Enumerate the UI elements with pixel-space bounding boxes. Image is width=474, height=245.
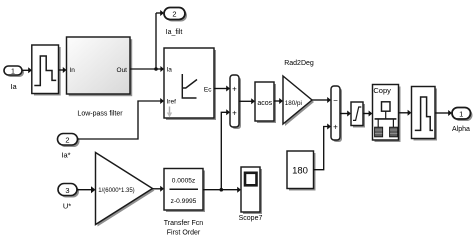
svg-text:−: − [333, 96, 338, 105]
svg-text:0.0005z: 0.0005z [172, 178, 195, 185]
svg-text:Transfer Fcn: Transfer Fcn [164, 220, 204, 227]
wire saturation to Copy [363, 111, 372, 117]
gain 1/(6000*1.35) [96, 153, 155, 227]
wire Copy to ZOH2 [399, 110, 412, 116]
svg-text:2: 2 [65, 136, 69, 145]
svg-text:Ia: Ia [10, 82, 17, 91]
svg-text:+: + [232, 108, 237, 117]
block Copy [373, 85, 401, 143]
svg-text:1/(6000*1.35): 1/(6000*1.35) [98, 188, 134, 194]
svg-text:Copy: Copy [373, 86, 391, 95]
inport 3 U* [58, 184, 79, 198]
svg-text:2: 2 [172, 10, 176, 19]
outport 1 Alpha [452, 108, 473, 122]
wire inport1 to ZOH1 [22, 67, 32, 73]
svg-text:3: 3 [65, 186, 69, 195]
block Transfer Fcn [164, 169, 205, 213]
svg-text:+: + [333, 122, 338, 131]
outport 2 Ia_filt [164, 8, 187, 22]
sum block S1 (+ +) [230, 75, 241, 129]
svg-text:180: 180 [292, 166, 308, 177]
svg-text:Alpha: Alpha [452, 126, 470, 133]
wire ZOH1 to lowpass [59, 67, 67, 73]
svg-text:z-0.9995: z-0.9995 [171, 198, 197, 205]
block Low-pass filter [67, 37, 133, 96]
svg-text:180/pi: 180/pi [285, 100, 302, 107]
inport 1 Ia [4, 66, 24, 77]
svg-text:In: In [70, 67, 76, 74]
wire gain to transfer fcn [153, 186, 165, 192]
svg-text:acos: acos [257, 100, 272, 107]
inport 2 Ia* [58, 134, 80, 148]
svg-text:Scope7: Scope7 [239, 215, 263, 222]
block ZOH2 (stair pulse) [412, 87, 438, 141]
svg-text:Iref: Iref [167, 99, 177, 106]
svg-text:Ia: Ia [167, 67, 173, 74]
svg-text:Rad2Deg: Rad2Deg [284, 60, 314, 67]
wire sum S1 to acos [239, 98, 255, 104]
block saturation [351, 102, 365, 128]
block Scope7 [241, 167, 262, 214]
svg-text:U*: U* [63, 202, 71, 211]
wire sum S2 to saturation [340, 111, 351, 117]
wire lowpass Out to comparator Ia (with branch to outport 2) [130, 10, 164, 72]
label Transfer Fcn First Order [164, 220, 204, 237]
svg-text:First Order: First Order [167, 230, 201, 237]
svg-text:Ia*: Ia* [61, 151, 70, 160]
block comparator Ec [164, 48, 216, 120]
wire constant 180 to sum S2 [314, 124, 332, 170]
svg-text:Ia_filt: Ia_filt [166, 29, 183, 36]
svg-text:1: 1 [459, 110, 463, 119]
block acos [255, 82, 276, 123]
wire inport2 to comparator Iref [78, 98, 165, 139]
wire ZOH2 to outport 1 [435, 110, 452, 116]
wire transfer-fcn junction to sum S1 [221, 109, 230, 189]
constant 180 [287, 151, 316, 191]
block ZOH1 (stair pulse) [32, 45, 61, 96]
svg-text:+: + [232, 84, 237, 93]
sum block S2 (- +) [331, 86, 342, 142]
svg-text:1: 1 [11, 69, 15, 76]
svg-text:Ec: Ec [204, 87, 212, 94]
wire inport3 to gain [77, 186, 96, 193]
svg-text:Low-pass filter: Low-pass filter [77, 111, 123, 118]
wire Rad2Deg to sum S2 [312, 97, 331, 103]
wire transfer fcn to scope (with junction) [203, 187, 241, 193]
gain Rad2Deg (180/pi) [283, 76, 314, 126]
wire acos to Rad2Deg [274, 98, 283, 104]
wire comparator Ec to sum S1 [214, 86, 230, 92]
svg-text:Out: Out [117, 67, 128, 74]
